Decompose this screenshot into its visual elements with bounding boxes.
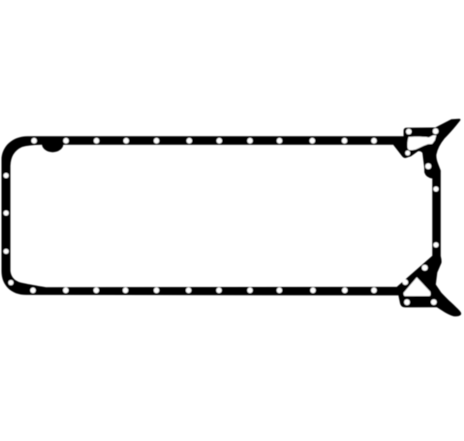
- bolt hole T9: [277, 138, 283, 144]
- bolt hole T11: [342, 138, 348, 144]
- bolt hole B6: [186, 288, 192, 294]
- bolt holes: bottom-right mounting wing: [403, 265, 437, 305]
- bolt hole L1: [4, 173, 9, 178]
- bolt hole T2: [63, 138, 69, 144]
- bolt hole W8: [431, 299, 437, 305]
- bolt hole T6: [187, 138, 193, 144]
- bolt hole B9: [277, 288, 283, 294]
- bolt hole T3: [94, 138, 100, 144]
- bolt hole B7: [216, 288, 222, 294]
- bolt hole W5: [422, 265, 428, 271]
- bolt hole W4: [425, 163, 431, 169]
- bolt hole B11: [342, 288, 348, 294]
- bottom-right wing white triangle pocket: [404, 277, 431, 296]
- bolt hole W2: [433, 128, 439, 134]
- bolt hole L2: [4, 210, 9, 215]
- bolt hole column: left flange: [4, 173, 14, 285]
- bolt hole row: top flange: [31, 138, 377, 144]
- bolt hole W7: [404, 299, 410, 305]
- bolt hole column: right flange: [433, 186, 438, 247]
- bolt hole B2: [63, 288, 69, 294]
- bolt hole B10: [310, 288, 316, 294]
- bolt hole B8: [247, 288, 253, 294]
- bolt hole T4: [123, 138, 129, 144]
- bolt hole B4: [123, 288, 129, 294]
- bolt hole L3: [4, 249, 9, 254]
- bolt hole W1: [406, 129, 412, 135]
- bolt hole B1: [30, 288, 36, 294]
- bolt hole W6: [403, 279, 409, 285]
- bolt hole R1: [433, 186, 438, 191]
- bolt hole B3: [94, 288, 100, 294]
- bolt hole T12: [371, 138, 377, 144]
- bolt hole T5: [154, 138, 160, 144]
- bolt hole W3: [405, 151, 410, 156]
- gasket body silhouette (outer rim with right-side mounting wings, evenodd cutout of interior): [2, 119, 462, 317]
- bolt hole B5: [154, 288, 160, 294]
- bolt hole row: bottom flange: [30, 288, 377, 294]
- bolt hole T7: [217, 138, 223, 144]
- top-right wing white pocket: [407, 135, 436, 150]
- bolt hole T1: [31, 138, 37, 144]
- bolt hole T8: [247, 138, 253, 144]
- bolt hole R2: [433, 242, 438, 247]
- bolt hole T10: [310, 138, 316, 144]
- bolt holes: top-right mounting wing: [405, 128, 438, 169]
- bolt hole B12: [371, 288, 377, 294]
- bolt hole L4 (bottom-left corner): [8, 280, 13, 285]
